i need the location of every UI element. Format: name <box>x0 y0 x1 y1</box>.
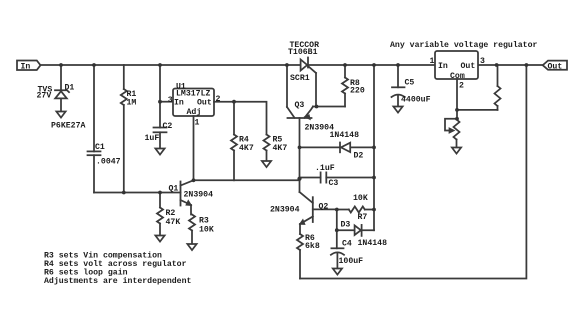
svg-text:.1uF: .1uF <box>315 164 335 173</box>
svg-text:Out: Out <box>548 63 563 72</box>
wire: Com pin down to divider node <box>457 79 498 119</box>
svg-text:2: 2 <box>459 81 464 90</box>
svg-text:D1: D1 <box>65 83 75 92</box>
svg-text:Q2: Q2 <box>319 202 329 211</box>
svg-text:47K: 47K <box>166 218 181 227</box>
svg-text:Adjustments are interdependent: Adjustments are interdependent <box>44 276 191 286</box>
svg-text:4K7: 4K7 <box>273 144 288 153</box>
svg-text:1uF: 1uF <box>145 134 160 143</box>
svg-text:Q1: Q1 <box>169 184 179 193</box>
wire: feedback net from Q1 collector/Adj to C3 node <box>194 179 300 181</box>
ground (C2) <box>155 149 164 155</box>
ground (C4) <box>333 269 342 275</box>
ground (R2) <box>155 236 164 242</box>
svg-text:D3: D3 <box>341 221 351 230</box>
svg-text:R6 sets loop gain: R6 sets loop gain <box>44 268 128 278</box>
svg-text:100uF: 100uF <box>339 257 364 266</box>
wire: Q1 base net (C1/R1/R2 to Q1 base) <box>94 192 181 194</box>
svg-text:LM317LZ: LM317LZ <box>176 90 210 99</box>
wire: input rail from In tag to SCR1 anode <box>41 64 301 66</box>
resistor R2 <box>157 193 163 236</box>
svg-text:3: 3 <box>168 96 173 105</box>
capacitor C1 <box>88 65 101 193</box>
op-amp U1: LM317LZ regulator box <box>173 89 214 117</box>
svg-text:R3 sets Vin compensation: R3 sets Vin compensation <box>44 251 162 261</box>
wire: bottom feedback rail to Out node <box>300 65 526 279</box>
svg-text:Out: Out <box>461 62 476 71</box>
svg-text:R2: R2 <box>166 209 176 218</box>
svg-text:P6KE27A: P6KE27A <box>51 121 85 130</box>
node Out: output connector tag <box>543 61 567 70</box>
resistor R4 <box>231 102 237 181</box>
svg-text:Q3: Q3 <box>295 101 305 110</box>
resistor R1 <box>121 65 127 193</box>
wire: U1 Out pin to R5 <box>214 102 267 135</box>
svg-text:R5: R5 <box>273 135 283 144</box>
svg-text:1M: 1M <box>127 99 137 108</box>
svg-text:10K: 10K <box>353 194 368 203</box>
svg-text:2N3904: 2N3904 <box>184 190 214 199</box>
svg-text:1N4148: 1N4148 <box>330 131 360 140</box>
capacitor C4 <box>331 248 344 268</box>
ground (R3) <box>187 244 196 250</box>
wire: Q3 base / D2 / C3 / Q2 collector vertical <box>299 118 301 192</box>
svg-text:C1: C1 <box>95 143 105 152</box>
svg-text:27V: 27V <box>37 91 52 100</box>
svg-text:D2: D2 <box>354 151 364 160</box>
potentiometer (voltage adjust) <box>445 119 460 148</box>
diode D3 (1N4148) <box>337 225 374 236</box>
svg-text:Any variable voltage regulator: Any variable voltage regulator <box>390 40 537 50</box>
svg-text:In: In <box>21 62 31 71</box>
wire: U1 input drop from rail <box>160 65 173 128</box>
wire: input-rail sense vertical (node C) <box>373 65 375 230</box>
wire: U1 Adj pin down to feedback node <box>193 116 195 180</box>
svg-text:C3: C3 <box>329 179 339 188</box>
svg-text:In: In <box>438 62 448 71</box>
svg-text:R4: R4 <box>239 135 249 144</box>
svg-text:C2: C2 <box>163 122 173 131</box>
svg-text:R1: R1 <box>127 90 137 99</box>
svg-text:2: 2 <box>216 95 221 104</box>
svg-text:C5: C5 <box>405 78 415 87</box>
svg-text:Com: Com <box>450 72 465 81</box>
svg-text:3: 3 <box>480 57 485 66</box>
svg-text:R7: R7 <box>358 213 368 222</box>
resistor R7 <box>337 207 374 213</box>
svg-text:220: 220 <box>350 87 365 96</box>
wire: gate node to R8 bottom <box>313 106 345 108</box>
ground (R5) <box>262 161 271 167</box>
capacitor C5 <box>392 65 405 107</box>
svg-text:2N3904: 2N3904 <box>270 206 300 215</box>
svg-text:6k8: 6k8 <box>305 241 320 251</box>
resistor R5 <box>264 135 270 162</box>
svg-text:.0047: .0047 <box>96 157 121 166</box>
svg-text:1: 1 <box>430 57 435 66</box>
transistor Q3 <box>287 65 313 119</box>
transistor Q2 <box>300 192 337 234</box>
wire: rail from regulator Out pin to Out tag <box>478 64 543 66</box>
ground (C5) <box>393 107 402 113</box>
svg-text:SCR1: SCR1 <box>290 74 310 83</box>
svg-text:4400uF: 4400uF <box>401 95 431 104</box>
capacitor C3 <box>300 172 375 182</box>
diode D2 (1N4148) <box>300 143 375 153</box>
svg-text:R4 sets volt across regulator: R4 sets volt across regulator <box>44 259 187 269</box>
svg-text:In: In <box>174 99 184 108</box>
svg-text:C4: C4 <box>342 239 352 248</box>
svg-text:Out: Out <box>197 99 212 108</box>
ground (D1) <box>56 112 65 118</box>
wire: Q2 base node down to C4 <box>336 210 338 249</box>
resistor R6 <box>297 234 303 279</box>
thyristor SCR1 <box>301 58 316 107</box>
capacitor C2 <box>154 128 167 149</box>
svg-text:T106B1: T106B1 <box>288 48 318 57</box>
transistor Q1 <box>181 180 194 214</box>
svg-text:1: 1 <box>195 118 200 127</box>
wire: rail from SCR1 cathode to regulator In pin <box>308 64 435 66</box>
ground (potentiometer) <box>452 148 461 154</box>
op-amp U2: any variable voltage regulator box <box>435 51 478 79</box>
svg-text:1N4148: 1N4148 <box>358 239 388 248</box>
svg-text:4K7: 4K7 <box>239 144 254 153</box>
node In: input connector tag <box>17 61 41 71</box>
resistor (Out to Com sense) <box>495 65 501 110</box>
svg-text:R3: R3 <box>199 216 209 225</box>
svg-text:Adj: Adj <box>187 107 202 117</box>
resistor R3 <box>189 215 195 245</box>
svg-text:10K: 10K <box>199 225 214 234</box>
resistor R8 <box>342 65 348 107</box>
diode D1 (TVS zener) <box>55 65 69 112</box>
